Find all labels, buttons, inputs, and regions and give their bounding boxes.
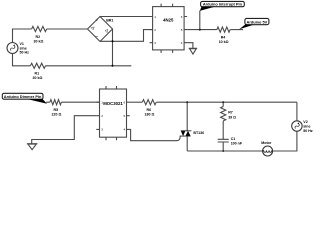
- node junction bottom rail: [112, 65, 114, 67]
- svg-text:Arduino 5V: Arduino 5V: [247, 19, 268, 24]
- svg-text:50 Hz: 50 Hz: [303, 129, 313, 133]
- svg-text:Arduino Interrupt Pin: Arduino Interrupt Pin: [203, 2, 243, 7]
- svg-text:BT136: BT136: [193, 131, 204, 135]
- svg-text:30 kΩ: 30 kΩ: [33, 76, 43, 80]
- svg-text:4N25: 4N25: [163, 18, 174, 23]
- svg-text:50 Hz: 50 Hz: [20, 51, 30, 55]
- svg-text:R2: R2: [36, 35, 41, 39]
- wire R5 to U2 pin1: [61, 101, 99, 103]
- wire R6 to top rail: [156, 101, 297, 103]
- wire motor to V2: [273, 131, 297, 151]
- wire interrupt flag stem: [199, 11, 201, 30]
- svg-text:220 Ω: 220 Ω: [52, 113, 62, 117]
- svg-text:MOC3021: MOC3021: [103, 101, 123, 106]
- voltage source V1: [7, 42, 29, 55]
- capacitor C1: [218, 137, 243, 151]
- svg-text:Motor: Motor: [261, 141, 272, 145]
- wire bridge right vertex down to bottom rail: [112, 29, 114, 66]
- wire V1 bottom to R1: [13, 54, 31, 66]
- resistor R7: [221, 102, 237, 139]
- motor M1: [261, 141, 273, 156]
- wire bridge bottom vertex to U1 pin2: [100, 30, 153, 42]
- op-amp U2 optocoupler MOC3021: [96, 86, 129, 140]
- voltage source V2: [292, 120, 313, 133]
- wire U1 pin5 to R4: [187, 29, 217, 31]
- ground near U2: [27, 144, 38, 150]
- flag Arduino Interrupt Pin: [200, 1, 245, 11]
- node junction C1 bottom: [222, 150, 224, 152]
- svg-text:R7: R7: [228, 110, 233, 114]
- bridge rectifier BR1: [88, 17, 114, 42]
- wire R1 to bottom node: [46, 65, 132, 67]
- wire bridge top vertex to U1 pin1: [100, 16, 153, 18]
- svg-text:BR1: BR1: [106, 18, 113, 22]
- node junction bridge wire cross: [112, 40, 114, 42]
- wire V2 top to rail: [296, 102, 298, 121]
- transistor Q1 triac BT136: [180, 131, 204, 136]
- svg-text:10 kΩ: 10 kΩ: [219, 40, 229, 44]
- flag Arduino Dimmer Pin: [2, 93, 47, 104]
- svg-text:30 kΩ: 30 kΩ: [34, 40, 44, 44]
- wire U2 pin2 to ground: [32, 116, 97, 144]
- svg-text:R4: R4: [221, 35, 226, 39]
- wire bottom rail triac to motor: [187, 150, 262, 152]
- flag Arduino 5V: [239, 18, 269, 29]
- wire triac branch vertical: [186, 102, 188, 151]
- resistor R5: [50, 100, 62, 117]
- ground near U1: [189, 48, 197, 54]
- resistor R2: [32, 26, 47, 43]
- svg-text:100 nF: 100 nF: [231, 141, 243, 145]
- resistor R1: [30, 63, 45, 80]
- node junction interrupt tap: [199, 29, 201, 31]
- wire V1 top to R2: [13, 29, 32, 43]
- wire dimmer flag to R5: [46, 101, 50, 103]
- svg-text:R1: R1: [35, 72, 40, 76]
- wire R4 to 5V flag: [230, 29, 243, 31]
- resistor R4: [217, 27, 230, 44]
- wire U2 pin6 to R6: [130, 101, 143, 103]
- node junction triac top: [186, 101, 188, 103]
- svg-text:180 Ω: 180 Ω: [145, 113, 155, 117]
- wire U2 pin4 to triac gate: [130, 129, 181, 140]
- node junction R7 top: [222, 101, 224, 103]
- svg-text:39 Ω: 39 Ω: [228, 115, 236, 119]
- op-amp U1 optocoupler 4N25: [150, 4, 188, 53]
- svg-text:R5: R5: [54, 108, 59, 112]
- svg-text:C1: C1: [231, 137, 236, 141]
- wire U1 pin4 to ground: [187, 43, 193, 49]
- resistor R6: [142, 100, 156, 117]
- svg-text:Arduino Dimmer Pin: Arduino Dimmer Pin: [4, 94, 42, 99]
- wire R2 to bridge left vertex: [47, 28, 88, 30]
- svg-text:R6: R6: [147, 108, 152, 112]
